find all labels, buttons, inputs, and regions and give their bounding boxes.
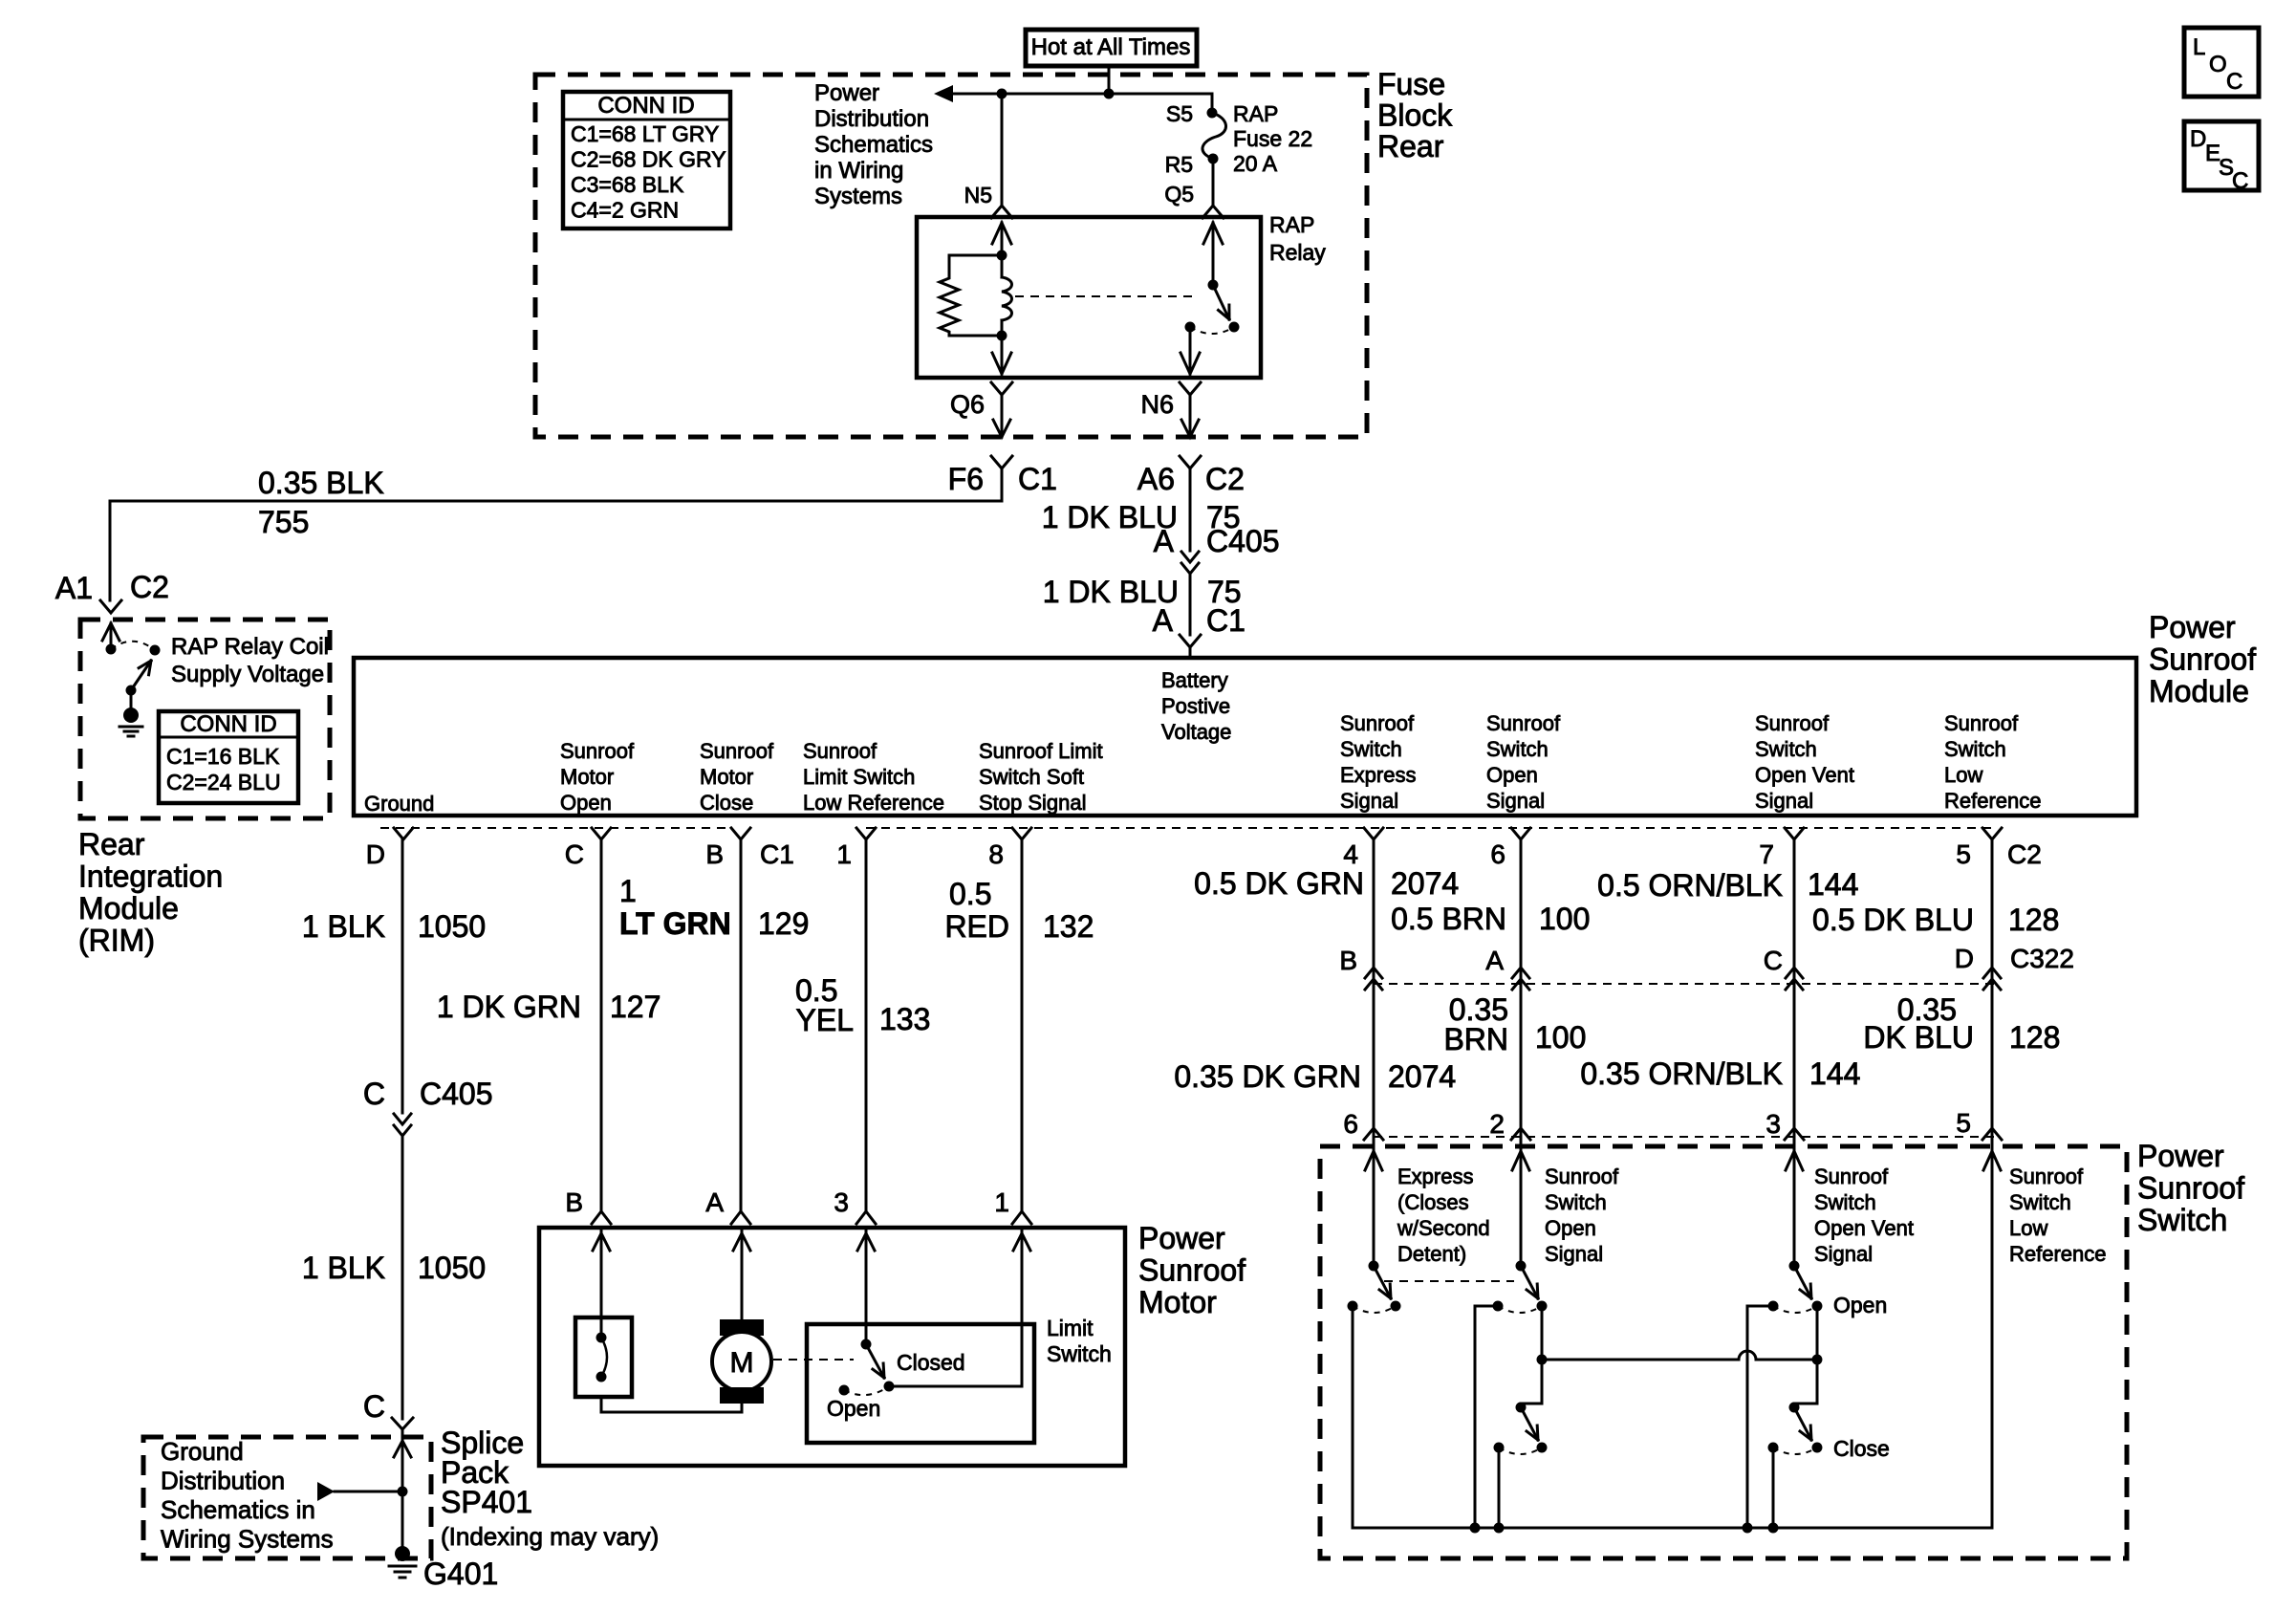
svg-text:C: C: [2232, 168, 2248, 194]
svg-text:RAP Relay Coil: RAP Relay Coil: [171, 634, 329, 660]
svg-text:755: 755: [258, 505, 309, 539]
svg-text:Reference: Reference: [1944, 789, 2042, 813]
svg-text:3: 3: [1765, 1109, 1781, 1139]
connector C322 dashed line: [1374, 983, 1998, 985]
svg-text:Signal: Signal: [1755, 789, 1813, 813]
svg-text:DK BLU: DK BLU: [1863, 1020, 1974, 1055]
svg-text:Fuse 22: Fuse 22: [1233, 126, 1312, 151]
switch pin connectors: [1364, 1128, 1383, 1140]
vent close switch blade: [1794, 1407, 1811, 1440]
wire arrow to splice: [335, 1491, 402, 1493]
relay coil output arrow: [1001, 336, 1004, 374]
wire sunroof switch express signal: [1373, 839, 1375, 1143]
RIM ground symbol: [119, 726, 142, 729]
svg-text:Open: Open: [1486, 763, 1538, 787]
wire Q5 drop: [1212, 163, 1215, 205]
wire soft stop signal: [1021, 839, 1024, 1210]
svg-text:SP401: SP401: [441, 1485, 532, 1519]
wire Q6 to fuse block edge: [1001, 395, 1004, 437]
limit switch travel arc: [844, 1386, 889, 1395]
Hot at All Times box: [1026, 30, 1197, 66]
svg-text:Closed: Closed: [897, 1350, 965, 1375]
wire N6 to fuse block edge: [1189, 395, 1192, 437]
svg-text:Open Vent: Open Vent: [1755, 763, 1854, 787]
limit switch pivot: [861, 1339, 872, 1350]
connector A6 C2: [1180, 456, 1201, 468]
svg-text:Module: Module: [78, 891, 179, 925]
svg-text:Sunroof: Sunroof: [2137, 1171, 2244, 1206]
DESC box: [2184, 121, 2259, 190]
svg-text:0.35 BLK: 0.35 BLK: [258, 466, 384, 500]
relay switch output arrow: [1189, 327, 1192, 374]
svg-text:2074: 2074: [1391, 866, 1459, 901]
svg-text:Block: Block: [1377, 98, 1453, 133]
wire to G401: [401, 1431, 404, 1554]
svg-text:129: 129: [758, 906, 809, 941]
svg-text:133: 133: [879, 1002, 930, 1036]
svg-text:C: C: [1764, 946, 1783, 975]
svg-text:C4=2 GRN: C4=2 GRN: [571, 198, 679, 223]
svg-text:C1=68 LT GRY: C1=68 LT GRY: [571, 121, 719, 146]
close switch travel arc: [1499, 1448, 1542, 1454]
connector A1 C2: [100, 600, 121, 613]
fuse block rear dashed outline: [535, 75, 1367, 437]
svg-text:Open: Open: [1833, 1293, 1887, 1317]
svg-text:A: A: [1153, 603, 1174, 638]
svg-text:5: 5: [1956, 1108, 1971, 1138]
svg-text:Sunroof: Sunroof: [803, 739, 877, 763]
wire open blade down: [1541, 1306, 1544, 1360]
close switch blade: [1521, 1407, 1538, 1440]
svg-text:Distribution: Distribution: [161, 1467, 285, 1495]
motor contact arc: [601, 1338, 607, 1377]
svg-text:YEL: YEL: [796, 1003, 854, 1037]
svg-text:100: 100: [1539, 902, 1590, 936]
svg-text:Limit Switch: Limit Switch: [803, 765, 915, 789]
svg-text:C322: C322: [2010, 944, 2074, 973]
svg-text:Ground: Ground: [161, 1437, 244, 1466]
close switch contact: [1494, 1443, 1505, 1453]
motor pin connectors: [592, 1211, 611, 1224]
svg-text:Signal: Signal: [1486, 789, 1545, 813]
svg-text:RAP: RAP: [1269, 212, 1314, 237]
svg-text:0.35 DK GRN: 0.35 DK GRN: [1174, 1059, 1361, 1094]
limit switch open contact: [839, 1385, 850, 1396]
wire vent to close pivot: [1794, 1360, 1817, 1407]
wire limit switch low reference: [865, 839, 868, 1210]
svg-text:Switch: Switch: [1486, 737, 1549, 761]
close switch pivot: [1516, 1403, 1527, 1413]
svg-text:132: 132: [1043, 909, 1094, 944]
svg-text:w/Second: w/Second: [1397, 1216, 1490, 1240]
svg-text:Low: Low: [1944, 763, 1982, 787]
relay switch pivot: [1208, 280, 1219, 291]
svg-text:Motor: Motor: [1138, 1285, 1217, 1319]
svg-text:Open: Open: [1545, 1216, 1596, 1240]
svg-text:BRN: BRN: [1443, 1022, 1508, 1056]
wire sunroof motor open: [600, 839, 603, 1210]
relay switch travel arc: [1190, 327, 1234, 334]
svg-text:Power: Power: [814, 80, 879, 106]
svg-text:Ground: Ground: [364, 792, 434, 816]
svg-text:C1: C1: [1206, 603, 1245, 638]
svg-text:C2: C2: [1205, 462, 1245, 496]
svg-text:D: D: [366, 839, 385, 869]
svg-text:Distribution: Distribution: [814, 106, 929, 132]
svg-text:C: C: [2226, 69, 2242, 95]
svg-text:Integration: Integration: [78, 860, 223, 894]
switch express pin arrow: [1365, 1151, 1382, 1170]
express switch contact: [1348, 1301, 1358, 1312]
svg-text:Close: Close: [700, 791, 753, 815]
svg-text:Switch: Switch: [1755, 737, 1817, 761]
wire sunroof switch open vent signal: [1793, 839, 1796, 1143]
fuse RAP Fuse 22 20 A: [1207, 108, 1218, 119]
vent close switch contact: [1768, 1443, 1779, 1453]
svg-text:Schematics in: Schematics in: [161, 1495, 315, 1524]
connector N5: [991, 206, 1012, 218]
motor brush bottom: [720, 1387, 764, 1404]
svg-text:1: 1: [994, 1187, 1009, 1217]
svg-text:Fuse: Fuse: [1377, 67, 1445, 101]
wire sunroof motor close: [740, 839, 743, 1210]
svg-text:C1: C1: [760, 839, 794, 869]
open switch travel arc: [1498, 1306, 1542, 1313]
svg-text:Express: Express: [1340, 763, 1416, 787]
RIM switch pivot: [126, 686, 137, 696]
svg-text:4: 4: [1343, 839, 1358, 869]
svg-text:A1: A1: [55, 571, 93, 605]
svg-text:2074: 2074: [1388, 1059, 1456, 1094]
svg-text:Rear: Rear: [1377, 129, 1444, 163]
svg-text:Module: Module: [2149, 674, 2249, 708]
svg-text:Power: Power: [1138, 1221, 1225, 1255]
svg-text:(Indexing may vary): (Indexing may vary): [441, 1522, 659, 1551]
svg-text:Open Vent: Open Vent: [1814, 1216, 1914, 1240]
junction dot splice: [398, 1487, 408, 1497]
motor contact dots: [596, 1333, 607, 1343]
svg-text:Schematics: Schematics: [814, 132, 933, 158]
svg-text:8: 8: [988, 839, 1004, 869]
express switch blade: [1374, 1266, 1391, 1298]
svg-text:C2=24 BLU: C2=24 BLU: [166, 770, 281, 795]
svg-text:Rear: Rear: [78, 827, 145, 861]
svg-text:C: C: [565, 839, 584, 869]
svg-text:Switch: Switch: [1047, 1341, 1112, 1366]
RIM switch travel arc: [111, 642, 155, 650]
svg-text:Voltage: Voltage: [1161, 720, 1231, 744]
wire hot feed horizontal: [948, 93, 1212, 96]
wire 1 DK BLU 75 lower: [1189, 574, 1192, 635]
wire vent contact to bus: [1747, 1306, 1773, 1528]
svg-text:Detent): Detent): [1397, 1242, 1466, 1266]
svg-text:Switch: Switch: [2137, 1203, 2227, 1237]
svg-text:Sunroof: Sunroof: [1944, 711, 2019, 735]
motor to limit switch dashed link: [773, 1359, 854, 1361]
CONN ID table (RIM): [159, 711, 298, 803]
bus junction dots: [1470, 1523, 1481, 1534]
svg-text:C2: C2: [2007, 839, 2042, 869]
motor circle: [712, 1332, 771, 1391]
svg-text:B: B: [565, 1187, 583, 1217]
vent switch contact: [1768, 1301, 1779, 1312]
svg-text:Express: Express: [1397, 1165, 1473, 1188]
G401 ground symbol: [389, 1565, 416, 1568]
RIM switch contact right: [150, 645, 161, 656]
wire contact to motor: [601, 1397, 742, 1412]
svg-text:Sunroof: Sunroof: [1486, 711, 1561, 735]
svg-text:S5: S5: [1166, 101, 1193, 126]
svg-text:Switch: Switch: [1814, 1190, 1876, 1214]
svg-text:Motor: Motor: [700, 765, 753, 789]
svg-text:Open: Open: [560, 791, 612, 815]
svg-text:C2: C2: [130, 570, 169, 604]
connector A C1 into module: [1180, 635, 1201, 647]
svg-text:LT GRN: LT GRN: [619, 906, 731, 941]
svg-text:100: 100: [1535, 1020, 1586, 1055]
limit switch blade: [866, 1344, 884, 1378]
vent switch travel arc: [1773, 1306, 1817, 1313]
connector F6 C1: [991, 456, 1012, 468]
svg-text:Sunroof: Sunroof: [1138, 1253, 1245, 1288]
connector C322 chevrons: [1365, 968, 1382, 978]
motor pin B arrow: [593, 1233, 610, 1251]
vent signal pin arrow: [1786, 1151, 1803, 1170]
relay coil top junction: [997, 250, 1007, 261]
svg-text:Battery: Battery: [1161, 668, 1228, 692]
svg-text:A: A: [1154, 524, 1175, 558]
svg-text:Signal: Signal: [1340, 789, 1398, 813]
svg-text:Sunroof: Sunroof: [700, 739, 774, 763]
svg-text:N6: N6: [1140, 390, 1174, 419]
svg-text:127: 127: [610, 990, 661, 1024]
LOC box: [2184, 28, 2259, 97]
motor contact rectangle: [575, 1317, 632, 1397]
svg-text:Supply Voltage: Supply Voltage: [171, 662, 324, 687]
vent switch pivot: [1789, 1261, 1800, 1272]
wire 1 DK BLU 75 upper: [1189, 468, 1192, 551]
svg-text:0.5: 0.5: [949, 877, 991, 911]
ground distribution dashed outline: [143, 1437, 431, 1558]
open signal pin arrow: [1512, 1151, 1529, 1170]
switch ground bus: [1353, 1527, 1992, 1530]
wire 0.35 BLK 755: [110, 468, 1002, 600]
vent switch blade: [1794, 1266, 1811, 1298]
wire express contact to bus: [1352, 1306, 1354, 1528]
svg-text:144: 144: [1808, 867, 1858, 902]
svg-text:RAP: RAP: [1233, 101, 1278, 126]
svg-text:A: A: [1485, 946, 1504, 975]
svg-text:Relay: Relay: [1269, 240, 1326, 265]
svg-text:Switch Soft: Switch Soft: [979, 765, 1084, 789]
module pin connectors: [394, 828, 413, 839]
svg-text:A6: A6: [1137, 462, 1175, 496]
relay coil bottom junction: [997, 331, 1007, 341]
svg-text:M: M: [730, 1347, 754, 1379]
svg-text:Close: Close: [1833, 1436, 1890, 1461]
svg-text:Switch: Switch: [1340, 737, 1402, 761]
svg-text:Signal: Signal: [1545, 1242, 1603, 1266]
svg-text:Sunroof: Sunroof: [2009, 1165, 2084, 1188]
svg-text:6: 6: [1490, 839, 1505, 869]
svg-text:C1=16 BLK: C1=16 BLK: [166, 744, 280, 769]
arrow to power distribution: [934, 85, 953, 102]
limit switch box: [807, 1324, 1034, 1443]
svg-text:RED: RED: [944, 909, 1009, 944]
G401 ground dot: [395, 1546, 410, 1561]
relay switch blade: [1213, 285, 1229, 319]
svg-text:Wiring Systems: Wiring Systems: [161, 1525, 334, 1554]
switch pin row dashed line: [1374, 1136, 1998, 1138]
arrow to ground distribution: [317, 1482, 335, 1501]
svg-text:Signal: Signal: [1814, 1242, 1873, 1266]
wire vent close contact to bus: [1772, 1448, 1775, 1528]
motor pin 3 arrow: [857, 1233, 875, 1251]
svg-text:D: D: [2190, 126, 2206, 152]
open switch blade: [1521, 1266, 1538, 1298]
svg-text:Sunroof Limit: Sunroof Limit: [979, 739, 1103, 763]
svg-text:1 BLK: 1 BLK: [302, 909, 385, 944]
svg-text:Sunroof: Sunroof: [560, 739, 635, 763]
svg-text:C: C: [363, 1389, 385, 1424]
wire open contact to bus: [1475, 1306, 1498, 1528]
motor pin A arrow: [733, 1233, 750, 1251]
svg-text:Q5: Q5: [1164, 182, 1194, 207]
svg-text:Sunroof: Sunroof: [1545, 1165, 1619, 1188]
svg-text:L: L: [2193, 34, 2205, 60]
wire limit blade to pin 1: [889, 1385, 1022, 1388]
vent close switch pivot: [1789, 1403, 1800, 1413]
svg-text:Postive: Postive: [1161, 694, 1230, 718]
junction vent blade: [1812, 1355, 1823, 1365]
svg-text:0.5 DK BLU: 0.5 DK BLU: [1812, 903, 1974, 937]
svg-text:Low Reference: Low Reference: [803, 791, 944, 815]
wire ground 1 BLK lower: [401, 1136, 404, 1419]
svg-text:Switch: Switch: [1944, 737, 2006, 761]
wire S5 drop to fuse: [1211, 94, 1214, 108]
junction dot N5 branch: [997, 89, 1007, 99]
svg-text:1050: 1050: [418, 909, 486, 944]
svg-text:1: 1: [619, 874, 637, 908]
svg-text:O: O: [2209, 52, 2227, 77]
svg-text:A: A: [705, 1187, 724, 1217]
svg-text:in Wiring: in Wiring: [814, 158, 903, 184]
connector Q6: [991, 382, 1012, 395]
relay coil: [1001, 255, 1004, 277]
svg-text:CONN ID: CONN ID: [180, 711, 276, 737]
svg-text:6: 6: [1343, 1109, 1358, 1139]
express switch travel arc: [1353, 1306, 1396, 1313]
svg-text:Limit: Limit: [1047, 1316, 1094, 1340]
svg-text:Q6: Q6: [950, 390, 985, 419]
open switch pivot: [1516, 1261, 1527, 1272]
RIM ground dot: [123, 708, 139, 723]
rear integration module dashed outline: [80, 620, 330, 818]
svg-text:Motor: Motor: [560, 765, 614, 789]
svg-text:144: 144: [1809, 1056, 1860, 1091]
connector C405 ground wire: [394, 1114, 411, 1124]
wire N5 drop: [1001, 94, 1004, 205]
CONN ID table (fuse block): [563, 92, 730, 229]
gang dashed link: [1384, 1280, 1514, 1282]
wire ground 1 BLK upper: [401, 839, 404, 1113]
module pin row dashed line: [380, 827, 730, 829]
wire vent blade down: [1816, 1306, 1819, 1360]
connector into splice pack: [392, 1418, 413, 1429]
wire sunroof switch open signal: [1520, 839, 1523, 1143]
svg-text:Reference: Reference: [2009, 1242, 2107, 1266]
svg-text:Stop Signal: Stop Signal: [979, 791, 1087, 815]
svg-text:CONN ID: CONN ID: [597, 93, 694, 119]
relay switch pin arrow: [1203, 223, 1223, 244]
wire close contact to bus: [1498, 1448, 1501, 1528]
open switch contact: [1493, 1301, 1504, 1312]
connector C405 inline: [1181, 552, 1199, 562]
express switch pivot: [1369, 1261, 1379, 1272]
svg-text:0.5 DK GRN: 0.5 DK GRN: [1194, 866, 1364, 901]
svg-text:Power: Power: [2137, 1139, 2224, 1173]
svg-text:1: 1: [836, 839, 852, 869]
power sunroof module box: [354, 658, 2136, 816]
svg-text:R5: R5: [1165, 152, 1193, 177]
relay resistor: [940, 255, 1002, 336]
svg-text:Low: Low: [2009, 1216, 2047, 1240]
splice pack entry arrow: [394, 1441, 411, 1457]
power sunroof switch dashed outline: [1320, 1146, 2127, 1558]
RIM switch blade: [131, 661, 151, 690]
svg-text:D: D: [1955, 944, 1974, 973]
svg-text:3: 3: [834, 1187, 849, 1217]
low reference pin arrow: [1983, 1151, 2001, 1170]
motor pin 1 arrow: [1013, 1233, 1030, 1251]
svg-text:Sunroof: Sunroof: [2149, 642, 2256, 677]
svg-text:1 BLK: 1 BLK: [302, 1251, 385, 1285]
svg-text:C405: C405: [1206, 524, 1280, 558]
svg-text:128: 128: [2009, 1020, 2060, 1055]
svg-text:Sunroof: Sunroof: [1340, 711, 1415, 735]
vent close travel arc: [1773, 1448, 1817, 1454]
svg-text:C405: C405: [420, 1077, 493, 1111]
svg-text:1 DK GRN: 1 DK GRN: [437, 990, 581, 1024]
svg-text:20 A: 20 A: [1233, 151, 1278, 176]
RAP relay box: [917, 217, 1261, 378]
svg-text:F6: F6: [948, 462, 984, 496]
svg-text:N5: N5: [964, 183, 992, 207]
junction dot hot stub: [1104, 89, 1115, 99]
svg-text:5: 5: [1956, 839, 1971, 869]
svg-text:C3=68 BLK: C3=68 BLK: [571, 172, 684, 197]
junction open blade: [1537, 1355, 1548, 1365]
svg-text:1050: 1050: [418, 1251, 486, 1285]
relay actuation dashed link: [1015, 295, 1197, 297]
svg-text:C1: C1: [1018, 462, 1057, 496]
relay switch contact: [1185, 322, 1196, 333]
svg-text:Sunroof: Sunroof: [1755, 711, 1830, 735]
power sunroof motor box: [539, 1228, 1125, 1466]
svg-text:Sunroof: Sunroof: [1814, 1165, 1889, 1188]
svg-text:Hot at All Times: Hot at All Times: [1031, 34, 1191, 60]
svg-text:0.35 ORN/BLK: 0.35 ORN/BLK: [1580, 1056, 1783, 1091]
connector N6: [1180, 382, 1201, 395]
svg-text:Power: Power: [2149, 610, 2236, 644]
svg-text:G401: G401: [423, 1557, 498, 1591]
svg-text:B: B: [1339, 946, 1357, 975]
RIM switch contact left: [106, 644, 117, 655]
svg-text:C2=68 DK GRY: C2=68 DK GRY: [571, 147, 726, 172]
svg-text:0.5 ORN/BLK: 0.5 ORN/BLK: [1597, 868, 1783, 903]
svg-text:B: B: [705, 839, 724, 869]
wire open to close pivot: [1521, 1360, 1542, 1407]
